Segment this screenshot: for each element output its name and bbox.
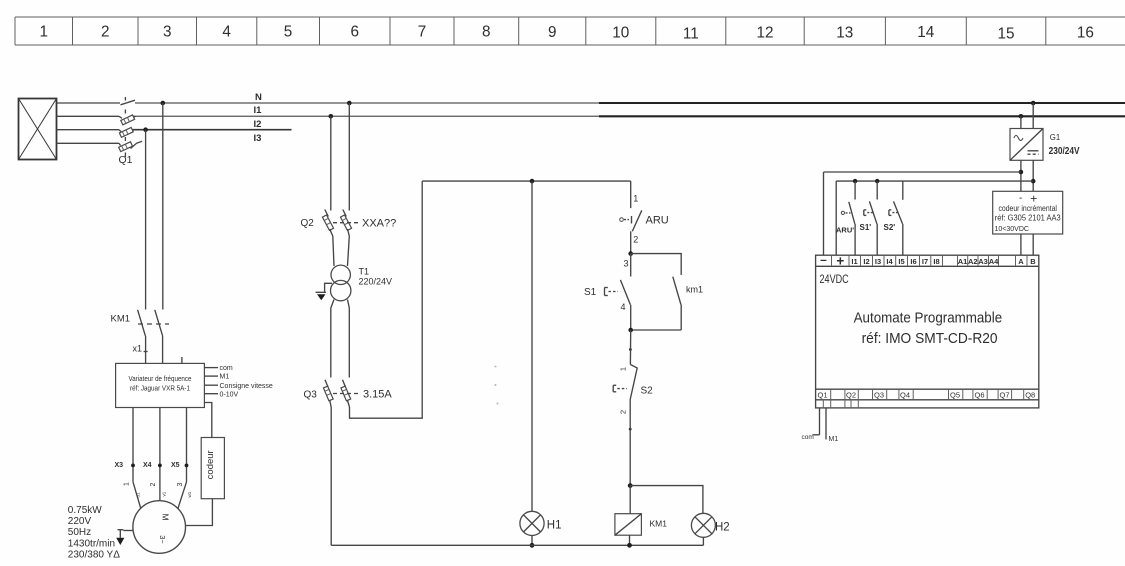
svg-text:G1: G1: [1050, 133, 1060, 142]
svg-text:230/380 YΔ: 230/380 YΔ: [68, 550, 120, 561]
svg-text:S2: S2: [641, 386, 654, 397]
svg-text:I2: I2: [254, 119, 262, 130]
svg-text:v1: v1: [162, 491, 167, 496]
svg-text:3: 3: [624, 259, 629, 269]
svg-text:3: 3: [163, 24, 172, 41]
svg-text:I7: I7: [922, 257, 928, 266]
svg-text:9: 9: [548, 24, 557, 41]
svg-text:1: 1: [619, 367, 628, 371]
svg-text:réf: G305 2101 AA3: réf: G305 2101 AA3: [995, 214, 1061, 223]
svg-text:T1: T1: [359, 267, 370, 277]
svg-text:B: B: [1030, 257, 1036, 266]
svg-text:7: 7: [418, 24, 427, 41]
svg-text:KM1: KM1: [650, 519, 668, 529]
svg-text:12: 12: [756, 25, 773, 42]
svg-text:0-10V: 0-10V: [220, 391, 239, 398]
svg-text:S1': S1': [860, 223, 872, 232]
svg-text:13: 13: [836, 25, 853, 42]
svg-text:X3: X3: [115, 462, 124, 469]
svg-text:0.75kW: 0.75kW: [68, 505, 102, 516]
svg-text:Q5: Q5: [950, 390, 960, 399]
svg-text:I8: I8: [933, 257, 939, 266]
svg-text:1430tr/min: 1430tr/min: [68, 538, 115, 549]
svg-text:I3: I3: [254, 133, 262, 144]
svg-text:codeur incrémental: codeur incrémental: [998, 204, 1057, 213]
svg-text:km1: km1: [686, 285, 703, 295]
svg-text:M1: M1: [220, 374, 230, 381]
svg-text:Q7: Q7: [1000, 390, 1010, 399]
svg-text:Consigne vitesse: Consigne vitesse: [220, 383, 273, 390]
svg-text:A3: A3: [978, 257, 988, 266]
svg-text:A1: A1: [958, 257, 968, 266]
svg-text:I1: I1: [254, 105, 263, 116]
svg-text:Q4: Q4: [900, 390, 910, 399]
svg-text:com: com: [220, 365, 233, 372]
svg-text:H2: H2: [715, 522, 730, 534]
svg-text:1: 1: [40, 24, 49, 41]
svg-text:X5: X5: [171, 462, 180, 469]
svg-text:24VDC: 24VDC: [820, 272, 849, 286]
svg-text:XXA??: XXA??: [362, 218, 396, 230]
svg-text:3: 3: [177, 482, 184, 486]
svg-text:+: +: [836, 254, 844, 269]
svg-text:230/24V: 230/24V: [1049, 145, 1080, 157]
svg-text:2: 2: [633, 235, 638, 245]
svg-text:14: 14: [917, 24, 935, 41]
svg-text:16: 16: [1077, 25, 1094, 42]
svg-text:S2': S2': [884, 223, 896, 232]
svg-text:ARU: ARU: [646, 215, 669, 227]
svg-text:Q3: Q3: [874, 390, 884, 399]
svg-text:11: 11: [683, 26, 699, 43]
svg-text:réf: IMO SMT-CD-R20: réf: IMO SMT-CD-R20: [862, 330, 998, 347]
svg-text:M: M: [161, 513, 171, 520]
svg-text:réf: Jaguar VXR 5A-1: réf: Jaguar VXR 5A-1: [130, 384, 190, 393]
svg-text:10<30VDC: 10<30VDC: [995, 226, 1029, 233]
svg-text:A4: A4: [989, 257, 999, 266]
svg-text:A2: A2: [968, 257, 978, 266]
svg-text:I5: I5: [898, 257, 904, 266]
svg-text:Q1: Q1: [818, 390, 828, 399]
svg-text:220/24V: 220/24V: [359, 277, 393, 287]
svg-text:x1: x1: [133, 344, 143, 354]
svg-text:2: 2: [101, 24, 110, 41]
svg-text:4: 4: [621, 302, 626, 312]
svg-text:I4: I4: [886, 257, 893, 266]
svg-text:Q3: Q3: [304, 389, 318, 400]
svg-text:2: 2: [150, 482, 157, 486]
svg-text:Q1: Q1: [119, 154, 133, 166]
svg-text:1: 1: [633, 193, 638, 203]
svg-text:KM1: KM1: [111, 314, 131, 325]
svg-text:3~: 3~: [158, 535, 167, 544]
svg-text:Q2: Q2: [301, 218, 315, 229]
svg-text:ARU': ARU': [836, 226, 854, 235]
svg-text:2: 2: [619, 410, 628, 414]
svg-text:X4: X4: [143, 462, 152, 469]
svg-text:Automate Programmable: Automate Programmable: [854, 310, 1003, 327]
svg-text:8: 8: [482, 24, 491, 41]
svg-text:w1: w1: [187, 491, 192, 497]
svg-text:I3: I3: [875, 257, 881, 266]
svg-text:50Hz: 50Hz: [68, 527, 91, 538]
svg-text:Variateur de fréquence: Variateur de fréquence: [129, 374, 192, 383]
svg-text:Q6: Q6: [975, 390, 985, 399]
svg-text:15: 15: [997, 26, 1014, 43]
svg-text:-: -: [1019, 193, 1022, 204]
svg-text:H1: H1: [547, 520, 562, 532]
svg-text:Q2: Q2: [846, 390, 856, 399]
svg-text:I1: I1: [851, 257, 857, 266]
svg-text:–: –: [820, 253, 827, 267]
svg-text:3.15A: 3.15A: [363, 389, 392, 401]
svg-text:A: A: [1018, 257, 1024, 266]
svg-text:Q8: Q8: [1025, 390, 1035, 399]
svg-text:5: 5: [284, 24, 293, 41]
svg-text:codeur: codeur: [205, 450, 216, 479]
svg-text:u1: u1: [136, 492, 141, 498]
svg-text:10: 10: [612, 25, 629, 42]
svg-text:4: 4: [222, 24, 231, 41]
svg-text:1: 1: [124, 482, 131, 486]
svg-text:I2: I2: [863, 257, 869, 266]
svg-text:M1: M1: [829, 436, 839, 443]
svg-text:I6: I6: [910, 257, 916, 266]
svg-text:N: N: [255, 92, 262, 103]
svg-text:6: 6: [350, 24, 359, 41]
svg-text:com: com: [802, 434, 814, 441]
svg-text:220V: 220V: [68, 516, 92, 527]
svg-text:S1: S1: [584, 287, 597, 298]
